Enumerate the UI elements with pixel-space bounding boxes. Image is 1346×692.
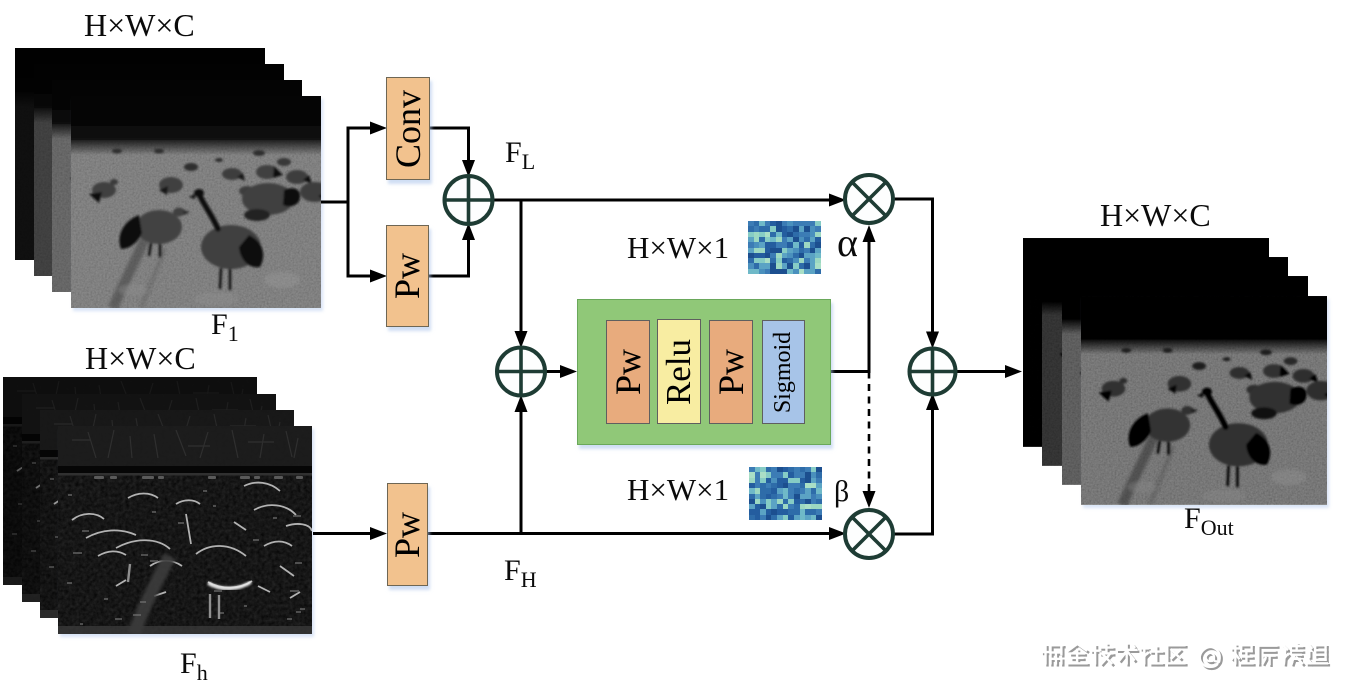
label Fh [180,647,208,686]
label HxWx1 top [627,230,729,266]
label HxWxC bottom-left [85,340,196,377]
bottleneck green container [577,299,831,445]
label HxWx1 bottom [627,472,729,508]
wire adder3 to output stack [955,370,1006,373]
wire Fh stack to Pw (bottom) [313,532,372,535]
wire FH: Pw bottom to multiplier beta [426,532,830,535]
label beta [834,475,849,509]
wire junction FH up to adder2 [520,411,523,535]
relu box [657,319,701,424]
multiplier circle beta [845,510,893,558]
label FOut [1184,502,1234,541]
input feature stack Fh (high-frequency edge maps) [3,377,257,585]
watermark juejin community [1042,644,1329,669]
sigmoid box [762,320,805,424]
pw box 1 in bottleneck [606,320,650,424]
attention map heatmap alpha [748,221,821,274]
wire arrow into Pw (top) [348,275,372,278]
label alpha [837,219,858,266]
label F1 [211,308,239,347]
label HxWxC top-left [84,7,195,44]
wire bottleneck output to junction [829,370,871,373]
adder circle 2 (FL+FH) [497,348,545,396]
pw box bottom [387,483,428,586]
wire multiplier alpha to adder3 [893,198,935,201]
pw box 2 in bottleneck [709,320,753,424]
wire arrow into Conv [348,127,372,130]
wire FL: adder1 to multiplier alpha [493,199,831,202]
adder circle 1 (Conv+Pw) [445,176,493,224]
label HxWxC output [1100,197,1211,234]
dashed wire attention down to multiplier beta [868,372,871,493]
adder circle 3 (output sum) [910,349,956,395]
wire attention up to multiplier alpha [868,240,871,372]
pw box top [386,225,429,327]
attention map heatmap beta [749,467,822,520]
wire multiplier beta to adder3 [893,533,934,536]
input feature stack F1 (low-frequency images) [15,48,265,260]
wire junction FL down to adder2 [520,199,523,333]
multiplier circle alpha [845,175,893,223]
output feature stack FOut [1023,238,1269,447]
conv box [386,77,430,180]
wire: F1 stack to Conv/Pw branch [321,201,350,204]
label FL [505,136,535,175]
wire Conv to adder1 [428,127,470,130]
wire Pw to adder1 [427,275,470,278]
wire adder2 to bottleneck block [545,370,562,373]
label FH [504,554,537,593]
